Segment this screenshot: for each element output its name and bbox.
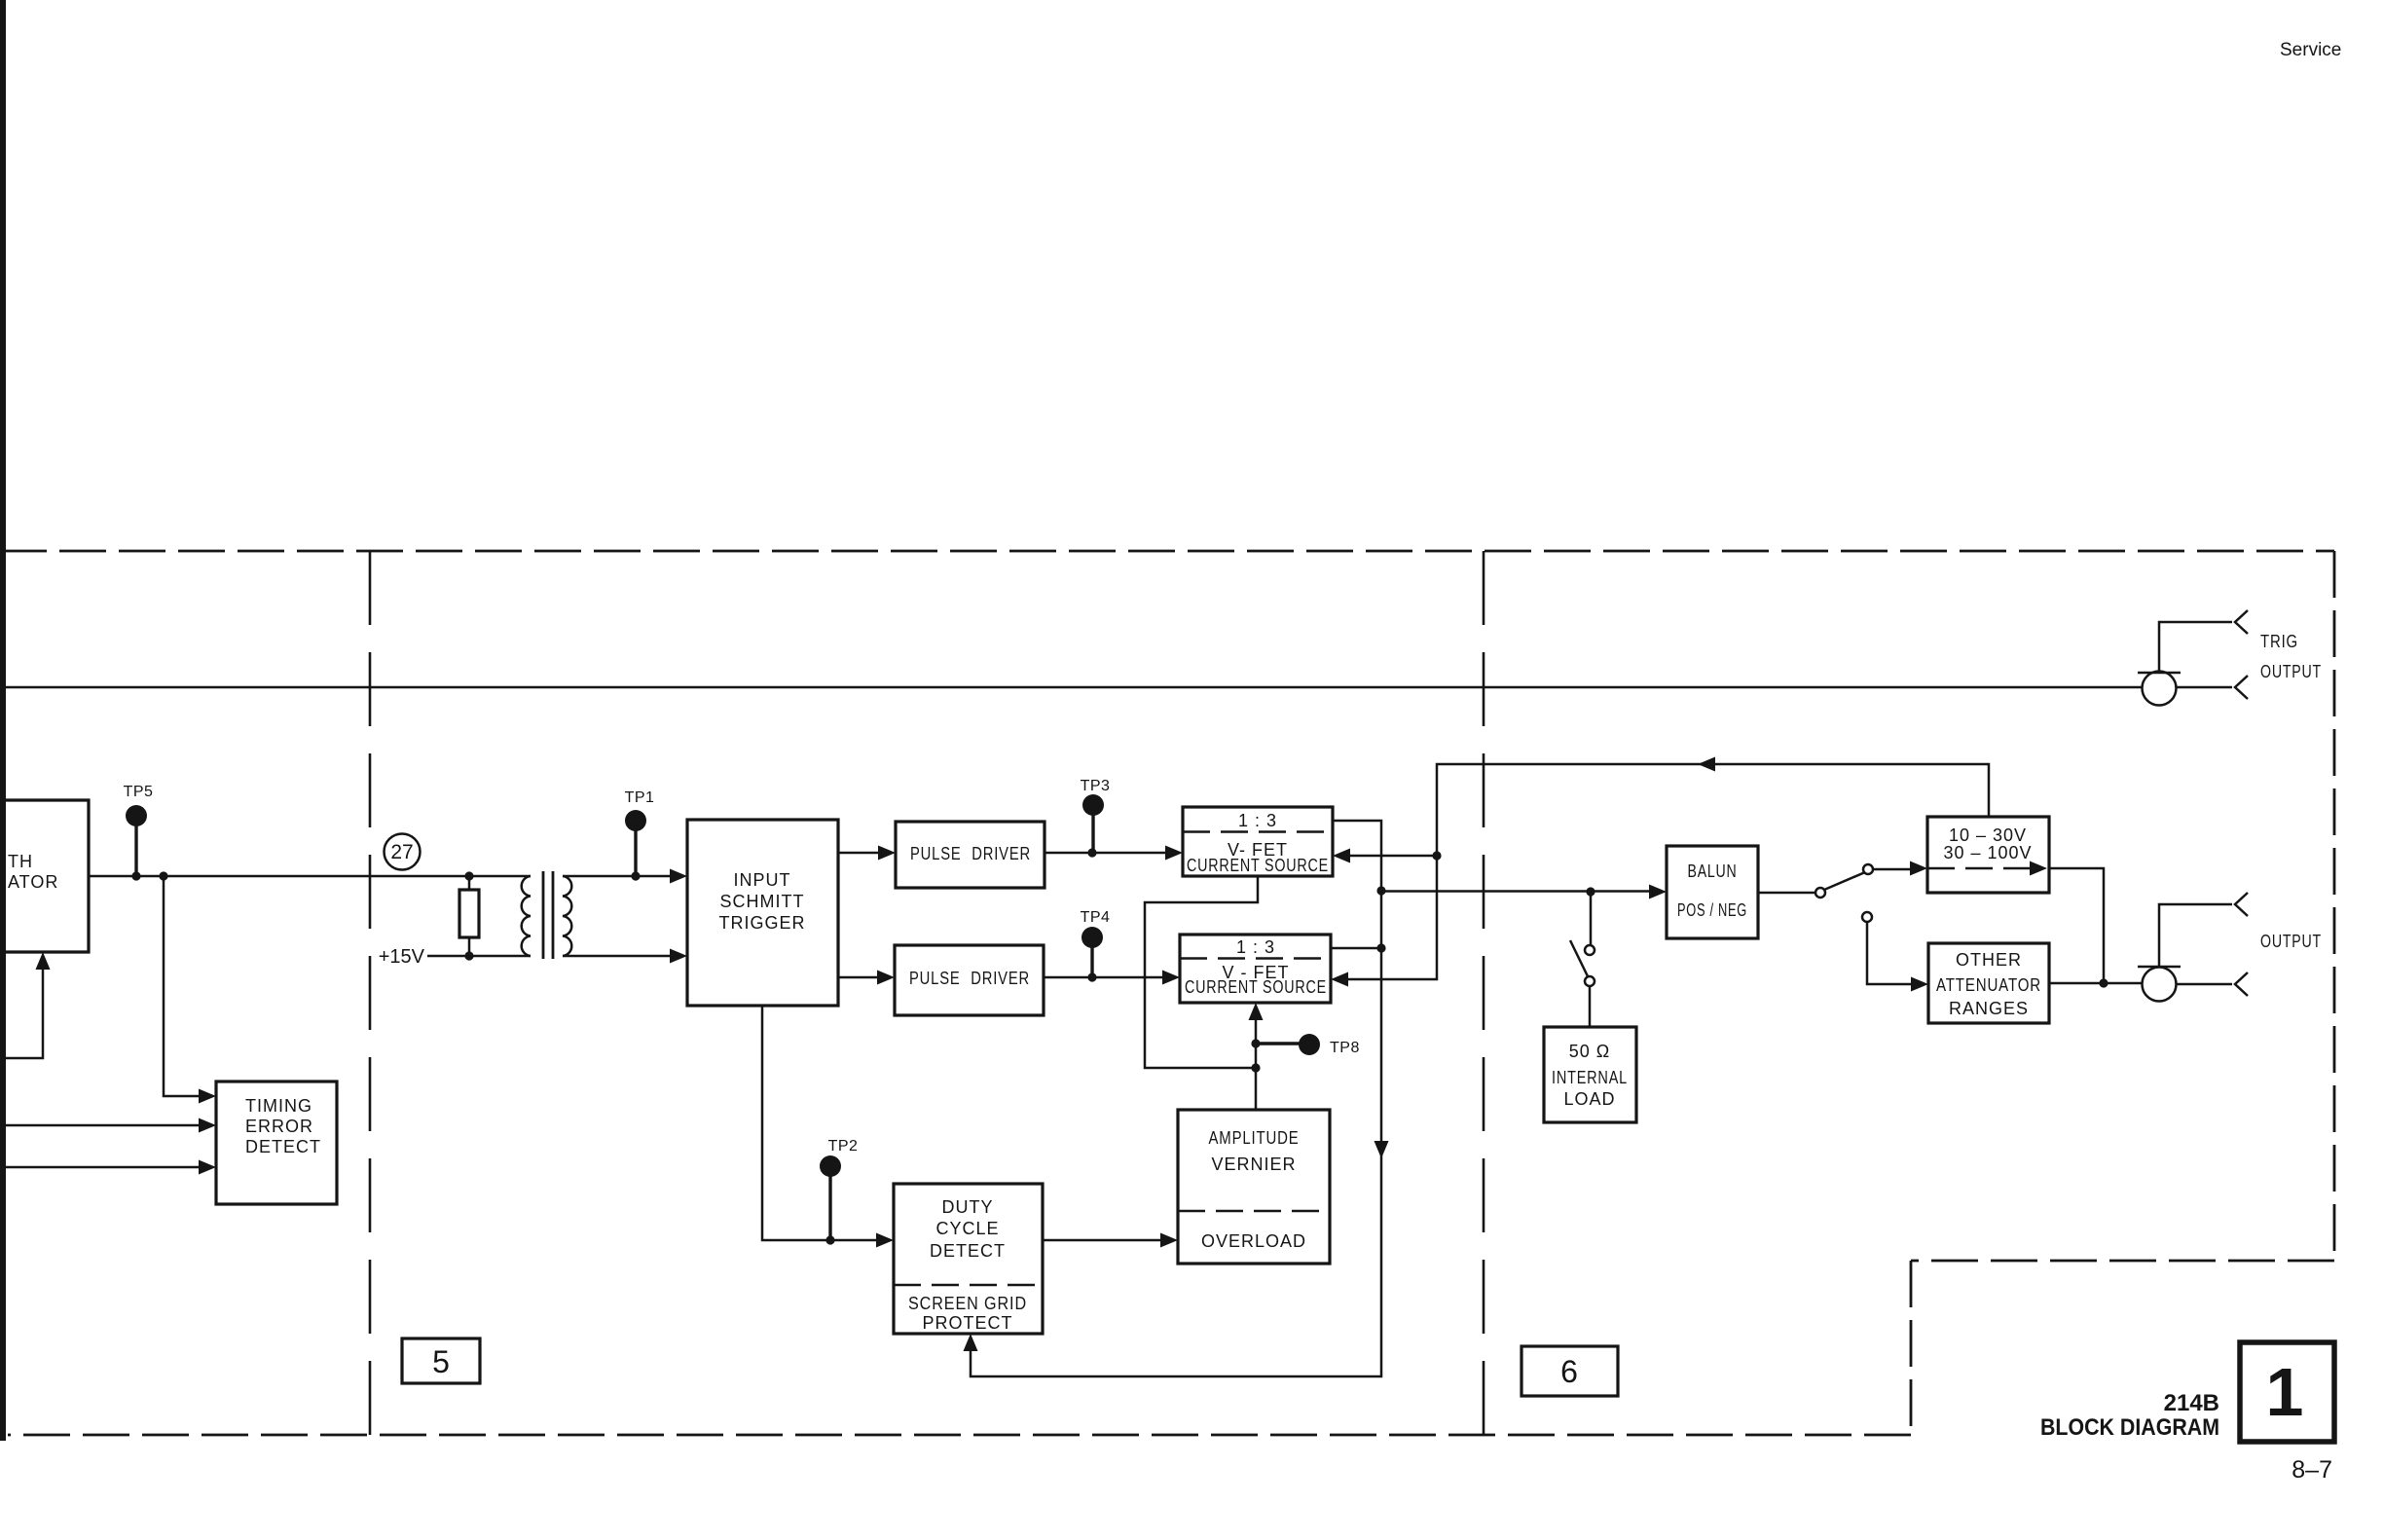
wire pulse driver 2 to V-FET source 2: [1044, 976, 1174, 979]
assembly boundary step horizontal (dashed): [1911, 1260, 2334, 1263]
svg-text:DETECT: DETECT: [930, 1241, 1006, 1261]
arrow up into width generator: [36, 952, 51, 970]
wire schmitt to pulse driver 2: [838, 976, 889, 979]
node junction TP3 tap: [1087, 848, 1096, 857]
wire V-FET 1 bottom loop to vernier line: [1145, 876, 1258, 1068]
svg-text:TP5: TP5: [124, 784, 154, 800]
arrow inside attenuator (dashed path, right): [2030, 862, 2047, 876]
label +15V: [379, 946, 425, 968]
test point TP3: [1081, 778, 1111, 853]
block duty cycle detect / screen grid protect: [894, 1184, 1043, 1334]
svg-text:INPUT: INPUT: [734, 870, 791, 890]
node junction loop / vernier line: [1251, 1063, 1260, 1072]
wire amplitude vernier to V-FET 2: [1255, 1008, 1258, 1110]
svg-text:INTERNAL: INTERNAL: [1552, 1068, 1628, 1087]
wire +15V feed: [427, 955, 531, 958]
block pulse driver 1: [896, 822, 1045, 888]
pin trig output lower contact: [2235, 676, 2248, 699]
arrow into other attenuator ranges: [1911, 977, 1928, 992]
block attenuator 10-30V / 30-100V: [1927, 817, 2049, 893]
svg-text:TP1: TP1: [625, 789, 655, 806]
test point TP8: [1256, 1034, 1360, 1056]
svg-text:SCHMITT: SCHMITT: [720, 892, 805, 911]
arrow into timing error detect (top): [199, 1089, 216, 1104]
svg-text:POS / NEG: POS / NEG: [1677, 900, 1747, 920]
node junction attenuator outputs: [2099, 978, 2108, 987]
arrow into overload: [1160, 1233, 1178, 1248]
assembly boundary bottom (dashed): [8, 1434, 1911, 1437]
label box 5: [402, 1338, 480, 1383]
svg-text:TP2: TP2: [828, 1138, 859, 1155]
test point TP2: [820, 1138, 858, 1240]
assembly boundary right (dashed): [2333, 551, 2336, 1261]
assembly divider 4/5 (dashed): [369, 551, 372, 1435]
wire other attenuator output to connector: [2049, 982, 2143, 985]
wire duty cycle detect to overload: [1043, 1239, 1172, 1242]
svg-text:+15V: +15V: [379, 946, 425, 968]
pin trig output upper contact: [2235, 610, 2248, 634]
svg-text:AMPLITUDE: AMPLITUDE: [1209, 1128, 1300, 1148]
wire feedback into width generator bottom: [6, 958, 43, 1058]
title 214B BLOCK DIAGRAM: [2040, 1390, 2219, 1441]
svg-text:8–7: 8–7: [2291, 1456, 2332, 1484]
svg-text:ATTENUATOR: ATTENUATOR: [1936, 975, 2041, 995]
node junction TP8 tap: [1251, 1039, 1260, 1047]
pin output lower contact: [2235, 972, 2248, 996]
wire V-FET 2 ratio tap: [1331, 947, 1381, 950]
arrow into pulse driver 2: [877, 971, 895, 985]
wire V-FET 1 ratio tap to output bus: [971, 821, 1381, 1376]
block pulse driver 2: [895, 945, 1044, 1015]
svg-text:ATOR: ATOR: [8, 872, 58, 892]
switch S1 to internal load: [1570, 892, 1595, 1027]
svg-text:LOAD: LOAD: [1563, 1089, 1615, 1109]
node junction TP5 tap: [131, 871, 140, 880]
test point TP4: [1081, 909, 1111, 977]
transformer T1 primary winding: [522, 876, 531, 956]
label OUTPUT: [2260, 932, 2322, 951]
svg-text:OVERLOAD: OVERLOAD: [1201, 1231, 1306, 1251]
svg-text:PROTECT: PROTECT: [922, 1313, 1012, 1333]
node junction resistor bottom: [464, 951, 473, 960]
arrow into balun: [1649, 885, 1667, 899]
arrow left on feedback line: [1698, 757, 1715, 772]
wire secondary top to schmitt trigger: [563, 875, 681, 878]
wire schmitt to pulse driver 1: [838, 852, 890, 855]
arrow into schmitt trigger (top): [670, 869, 687, 884]
wire switch to 10-30V attenuator: [1873, 868, 1922, 871]
svg-text:PULSE DRIVER: PULSE DRIVER: [909, 969, 1030, 988]
resistor (transformer primary shunt): [459, 876, 479, 956]
svg-text:BALUN: BALUN: [1688, 862, 1738, 881]
assembly boundary top (dashed): [0, 550, 2334, 553]
svg-text:OTHER: OTHER: [1956, 950, 2022, 970]
label TRIG OUTPUT: [2260, 632, 2322, 681]
svg-text:OUTPUT: OUTPUT: [2260, 662, 2322, 681]
node junction output bus / main line: [1376, 886, 1385, 895]
svg-text:6: 6: [1560, 1354, 1578, 1389]
svg-text:214B: 214B: [2164, 1390, 2219, 1416]
label box 6: [1521, 1346, 1618, 1396]
node junction TP4 tap: [1087, 972, 1096, 981]
arrow into duty cycle detect: [876, 1233, 894, 1248]
arrow into schmitt trigger (bottom): [670, 949, 687, 964]
block other attenuator ranges: [1928, 943, 2049, 1023]
assembly boundary step vertical (dashed): [1910, 1261, 1913, 1435]
node junction TP2 tap: [825, 1235, 834, 1244]
wire pulse driver 1 to V-FET source 1: [1045, 852, 1177, 855]
node 27 circled wire number: [385, 834, 421, 870]
arrow left into V-FET 2: [1331, 972, 1348, 987]
svg-text:27: 27: [390, 841, 413, 863]
arrow into pulse driver 1: [878, 846, 896, 861]
badge sheet number 1: [2240, 1342, 2334, 1442]
svg-text:RANGES: RANGES: [1949, 999, 2029, 1018]
svg-text:1: 1: [2266, 1354, 2304, 1430]
page number 8-7: [2291, 1456, 2332, 1484]
wire switch to other attenuator ranges: [1867, 922, 1923, 984]
svg-text:TIMING: TIMING: [245, 1096, 312, 1116]
assembly divider 5/6 (dashed): [1483, 551, 1485, 1435]
arrow into timing error detect (bottom): [199, 1160, 216, 1175]
svg-text:50 Ω: 50 Ω: [1569, 1042, 1610, 1061]
svg-text:TP8: TP8: [1330, 1040, 1360, 1056]
svg-text:ERROR: ERROR: [245, 1117, 313, 1136]
node junction timing-error tap: [159, 871, 167, 880]
transformer T1 core: [543, 871, 553, 959]
arrow into timing error detect (mid): [199, 1118, 216, 1133]
svg-text:DETECT: DETECT: [245, 1137, 321, 1156]
svg-text:BLOCK DIAGRAM: BLOCK DIAGRAM: [2040, 1414, 2219, 1441]
arrow into V-FET source 1: [1165, 846, 1183, 861]
switch S2 attenuator range select: [1815, 864, 1873, 922]
wire amplitude feedback from attenuator to current sources: [1335, 764, 1989, 979]
node junction 50-ohm load tap: [1586, 887, 1595, 896]
svg-text:CYCLE: CYCLE: [935, 1219, 999, 1238]
node junction resistor top: [464, 871, 473, 880]
svg-text:TRIG: TRIG: [2260, 632, 2298, 651]
wire balun to range switch: [1758, 892, 1815, 895]
wire timing error detect input 3: [6, 1166, 210, 1169]
block timing error detect: [216, 1082, 337, 1204]
wire feedback into V-FET 1 right side: [1338, 855, 1437, 858]
node junction feedback / V-FET 1 control: [1432, 851, 1441, 860]
svg-text:1 : 3: 1 : 3: [1236, 937, 1275, 957]
svg-text:SCREEN GRID: SCREEN GRID: [908, 1294, 1027, 1313]
wire schmitt trigger to duty cycle detect: [762, 1006, 888, 1240]
block width generator (partial, off page): [6, 800, 89, 952]
wire timing error detect input 2: [6, 1124, 210, 1127]
block balun pos/neg: [1667, 846, 1758, 938]
block 50 ohm internal load: [1544, 1027, 1636, 1122]
svg-text:CURRENT SOURCE: CURRENT SOURCE: [1185, 977, 1327, 997]
wire down to timing error detect: [164, 876, 210, 1096]
arrow up into screen grid protect: [964, 1334, 978, 1351]
arrow into V-FET source 2: [1162, 971, 1180, 985]
arrow up into V-FET 2 bottom: [1249, 1003, 1264, 1020]
svg-text:VERNIER: VERNIER: [1211, 1155, 1296, 1174]
wire secondary bottom to schmitt trigger: [563, 955, 681, 958]
node junction TP1 tap: [631, 871, 640, 880]
pin output upper contact: [2235, 893, 2248, 916]
test point TP1: [625, 789, 655, 876]
block V-FET current source 2 (1:3): [1180, 935, 1331, 1003]
connector J1 output: [2138, 904, 2232, 1002]
node junction output bus / V-FET 2 ratio tap: [1376, 943, 1385, 952]
test point TP5: [124, 784, 154, 876]
connector J2 trig output: [2138, 622, 2232, 706]
svg-text:TRIGGER: TRIGGER: [718, 913, 805, 933]
block input schmitt trigger: [687, 820, 838, 1006]
arrow left into V-FET 1: [1333, 849, 1350, 863]
svg-text:10 – 30V: 10 – 30V: [1949, 825, 2027, 845]
svg-text:DUTY: DUTY: [942, 1197, 994, 1217]
svg-text:TP3: TP3: [1081, 778, 1111, 794]
svg-text:TH: TH: [8, 852, 33, 871]
block amplitude vernier / overload: [1178, 1110, 1330, 1264]
wire 10-30V output down to output node: [2049, 868, 2104, 983]
block V-FET current source 1 (1:3): [1183, 807, 1333, 876]
svg-text:CURRENT SOURCE: CURRENT SOURCE: [1187, 856, 1329, 875]
arrow into 10-30V attenuator: [1910, 862, 1927, 876]
svg-text:1 : 3: 1 : 3: [1238, 811, 1277, 830]
transformer T1 secondary winding: [563, 876, 571, 956]
wire trig output line (full width): [0, 686, 2232, 689]
arrow down on screen-grid feedback line: [1375, 1141, 1389, 1158]
svg-text:Service: Service: [2280, 40, 2341, 60]
svg-text:TP4: TP4: [1081, 909, 1111, 926]
svg-text:PULSE DRIVER: PULSE DRIVER: [910, 844, 1031, 863]
svg-text:5: 5: [432, 1344, 450, 1379]
wire main output line to balun: [1381, 890, 1661, 893]
svg-text:OUTPUT: OUTPUT: [2260, 932, 2322, 951]
svg-text:30 – 100V: 30 – 100V: [1943, 843, 2032, 862]
wire main signal from width generator to transformer: [89, 875, 531, 878]
Service header text: [2280, 40, 2341, 60]
